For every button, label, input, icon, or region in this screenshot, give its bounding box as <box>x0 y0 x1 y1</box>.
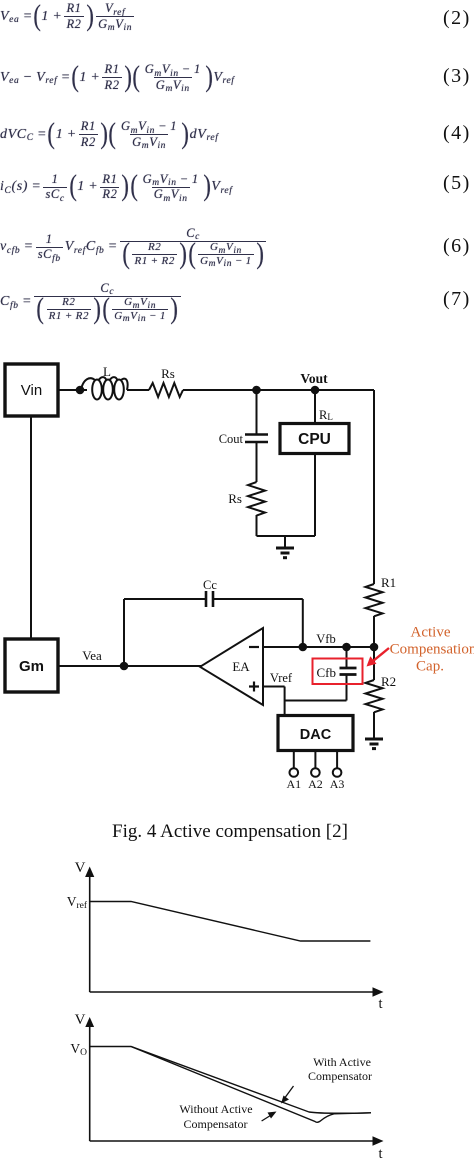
svg-text:Compensator: Compensator <box>184 1117 248 1131</box>
svg-text:Cout: Cout <box>219 432 244 446</box>
equation 6 <box>0 227 268 267</box>
wire L to Rs <box>127 389 149 391</box>
CPU box <box>280 424 349 454</box>
node dot Cfb join <box>342 643 351 652</box>
bottom rail <box>257 535 316 537</box>
curve with active compensator <box>90 1047 371 1114</box>
svg-text:Gm: Gm <box>19 658 44 675</box>
wire Gm to EA apex <box>58 648 201 666</box>
op-amp EA <box>200 628 263 705</box>
wire R2 to ground <box>373 712 375 738</box>
svg-text:A2: A2 <box>308 777 323 791</box>
ground (CPU rail) <box>276 536 294 558</box>
wire Rs to right corner <box>183 389 374 391</box>
Vref curve <box>90 902 371 942</box>
svg-text:Compensator: Compensator <box>308 1069 372 1083</box>
svg-text:Vfb: Vfb <box>316 632 335 646</box>
svg-text:Cap.: Cap. <box>416 659 444 675</box>
svg-text:Cc: Cc <box>203 578 217 592</box>
left rail Vin to Gm <box>30 416 32 639</box>
svg-text:V: V <box>75 1012 86 1028</box>
wire Cout branch down <box>256 390 258 434</box>
wire Cc to Vfb node <box>213 598 303 600</box>
right rail down from Vout <box>373 390 375 584</box>
svg-text:Vea: Vea <box>82 648 102 663</box>
svg-text:Active: Active <box>411 625 451 641</box>
svg-text:t: t <box>379 996 383 1012</box>
wire Cfb bottom to DAC node <box>346 675 348 701</box>
wire Vref down to DAC <box>284 687 286 716</box>
Gm box <box>5 639 58 692</box>
resistor R2 <box>366 674 397 712</box>
wire CPU down <box>314 453 316 536</box>
node Vout <box>300 371 328 394</box>
wire Vout to CPU <box>314 390 316 423</box>
wire Rs2 to bottom rail <box>256 515 258 536</box>
label Without Active Compensator <box>179 1102 252 1131</box>
Vin box <box>5 364 58 416</box>
capacitor Cout <box>219 432 268 446</box>
svg-text:A3: A3 <box>330 777 345 791</box>
label With Active Compensator <box>308 1055 372 1083</box>
curve without active compensator <box>131 1047 371 1123</box>
svg-text:DAC: DAC <box>300 727 332 743</box>
svg-text:t: t <box>379 1146 383 1159</box>
GRAPH 1 <box>67 860 384 1012</box>
wire Cfb top <box>346 647 348 668</box>
node dot Vfb on rail <box>370 643 379 652</box>
inductor L <box>81 364 128 400</box>
equation 2 <box>0 1 136 32</box>
svg-text:Cfb: Cfb <box>317 665 337 680</box>
GRAPH 2 <box>70 1012 383 1159</box>
svg-text:Rs: Rs <box>228 491 242 506</box>
DAC pin A3 <box>330 751 345 792</box>
svg-text:R1: R1 <box>381 575 396 590</box>
wire Vin to L <box>58 389 87 391</box>
svg-text:Compensation: Compensation <box>390 642 474 658</box>
wire EA minus input (Vfb line) <box>263 632 374 647</box>
red box (active compensation cap) <box>313 659 363 685</box>
equation 3 <box>0 62 235 93</box>
node dot Cout branch <box>252 386 261 395</box>
svg-text:EA: EA <box>232 659 250 674</box>
y axis graph2 <box>75 1012 95 1141</box>
wire R1 to Vfb node <box>373 616 375 680</box>
svg-text:Without Active: Without Active <box>179 1102 252 1116</box>
svg-text:Vref: Vref <box>270 671 293 685</box>
equation 7 <box>0 281 183 323</box>
resistor R1 <box>366 575 397 616</box>
wire EA plus input (Vref) <box>263 671 293 687</box>
svg-text:L: L <box>103 364 111 379</box>
svg-text:RL: RL <box>319 408 333 422</box>
ground (R2) <box>365 739 383 749</box>
x axis graph1 <box>90 987 384 1012</box>
capacitor Cfb <box>317 665 357 680</box>
node dot Cc join <box>299 643 308 652</box>
svg-text:CPU: CPU <box>298 431 331 448</box>
svg-text:Vout: Vout <box>300 371 328 386</box>
label Active Compensation Cap. <box>390 625 474 675</box>
equation 5 <box>0 171 232 203</box>
equation 4 <box>0 119 218 150</box>
red arrow <box>367 648 390 667</box>
arrow to without-curve <box>262 1112 277 1122</box>
wire Vea up to Cc <box>123 599 125 666</box>
svg-text:With Active: With Active <box>313 1055 371 1069</box>
svg-text:Vin: Vin <box>21 382 42 399</box>
wire Cout to Rs2 <box>256 442 258 482</box>
svg-text:Rs: Rs <box>161 366 175 381</box>
x axis graph2 <box>90 1136 384 1159</box>
capacitor Cc <box>203 578 217 607</box>
DAC pin A1 <box>286 751 301 792</box>
DAC pin A2 <box>308 751 323 792</box>
svg-text:A1: A1 <box>286 777 301 791</box>
svg-text:R2: R2 <box>381 674 396 689</box>
caption <box>0 821 460 843</box>
node dot at Vin output <box>76 386 85 395</box>
DAC box <box>278 716 353 751</box>
arrow to with-curve <box>281 1086 294 1104</box>
svg-text:Vref: Vref <box>67 894 88 911</box>
svg-text:VO: VO <box>70 1041 87 1058</box>
node dot Vea <box>120 662 129 671</box>
resistor Rs (top) <box>149 366 183 397</box>
y axis graph1 <box>75 860 95 992</box>
svg-text:V: V <box>75 860 86 876</box>
resistor Rs (output) <box>228 482 265 516</box>
